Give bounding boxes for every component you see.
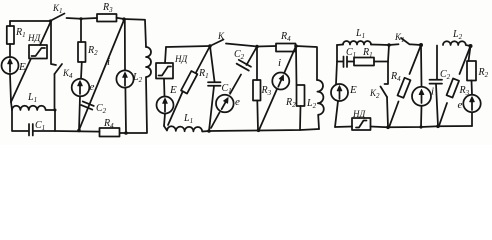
wire R2 lower (circuit2) <box>299 106 302 130</box>
wire R3 branch upper (circuit2) <box>256 47 258 81</box>
wire E to corner node <box>10 74 11 102</box>
current source i circle (circuit2) <box>272 73 289 90</box>
svg-text:L1: L1 <box>27 92 37 104</box>
wire top-left <box>10 20 50 22</box>
svg-text:L2: L2 <box>132 72 143 84</box>
wire loop right <box>33 110 55 131</box>
source e circle (circuit2) <box>216 95 234 113</box>
wire left edge to C1 (circuit3) <box>336 45 338 62</box>
switch K (circuit2) <box>210 40 224 47</box>
resistor R2 <box>78 42 86 62</box>
diagonal wire B to D (circuit2) <box>211 47 257 129</box>
wire R2 to e (circuit3) <box>471 81 474 95</box>
capacitor C2 (circuit2) <box>237 60 251 71</box>
current source J circle <box>116 70 133 87</box>
wire R1 to K2 branch (circuit3) <box>374 61 388 63</box>
wire right edge top (circuit2) <box>296 46 317 80</box>
svg-text:C2: C2 <box>440 69 451 81</box>
wire J branch lower <box>124 88 127 133</box>
svg-text:C2: C2 <box>234 49 245 61</box>
svg-text:i: i <box>107 56 110 68</box>
svg-text:L2: L2 <box>306 98 317 110</box>
svg-text:НД: НД <box>27 33 41 43</box>
wire J branch upper <box>124 19 126 70</box>
wire K2 lower (circuit3) <box>387 97 388 127</box>
wire diagonal i <box>79 20 124 130</box>
source e circle (circuit3) <box>463 95 480 112</box>
inductor L1 bottom (circuit2) <box>164 126 209 132</box>
top wire (circuit2) <box>166 46 210 47</box>
wire R3 to right corner <box>117 18 147 47</box>
wire C2 lower (circuit3) <box>436 84 438 126</box>
wire node A to ND box <box>40 21 51 45</box>
resistor R1 <box>9 21 11 26</box>
svg-text:E: E <box>169 84 177 96</box>
svg-text:R2: R2 <box>478 67 489 79</box>
switch K1 (circuit3) <box>389 38 421 45</box>
wire loop left <box>12 110 28 131</box>
svg-text:R4: R4 <box>390 71 401 83</box>
wire after K1 to R3 <box>67 17 98 20</box>
inductor L2 (circuit3) <box>443 41 471 46</box>
svg-text:К1: К1 <box>394 32 404 44</box>
svg-text:К1: К1 <box>52 3 62 15</box>
inductor L2 (right edge coil) <box>146 47 151 77</box>
svg-text:R2: R2 <box>285 97 296 109</box>
wire R3 lower (circuit2) <box>256 101 259 131</box>
svg-text:C2: C2 <box>96 103 107 115</box>
resistor R4 slanted (circuit3) <box>389 45 421 127</box>
bottom wire (circuit2) <box>209 129 319 131</box>
svg-text:R2: R2 <box>87 45 98 57</box>
wire i branch lower (circuit3) <box>420 106 423 127</box>
wire C1 branch upper (circuit2) <box>210 46 215 82</box>
wire B to R4 (circuit2) <box>257 45 276 48</box>
switch K1 <box>50 14 65 22</box>
top-left corner wire (circuit3) <box>337 44 343 47</box>
bottom wire left <box>55 130 100 133</box>
wire E to bottom corner (circuit3) <box>335 101 338 127</box>
svg-text:R1: R1 <box>362 47 373 59</box>
svg-text:e: e <box>90 81 95 93</box>
wire K4 branch vertical <box>51 21 56 65</box>
wire left edge down (circuit3) <box>336 62 337 85</box>
wire K4 lower <box>54 74 56 110</box>
svg-text:R1: R1 <box>15 27 26 39</box>
wire ND to E <box>163 79 166 97</box>
wire right edge lower <box>120 78 147 134</box>
inductor L1 <box>12 106 55 110</box>
svg-text:К: К <box>217 31 225 41</box>
capacitor C2 on diagonal <box>81 101 94 109</box>
capacitor C1 (circuit3) <box>337 57 354 68</box>
resistor R4 <box>100 128 120 137</box>
svg-text:L1: L1 <box>355 28 365 40</box>
svg-text:i: i <box>278 57 281 69</box>
wire E to bottom corner <box>164 114 165 127</box>
svg-text:E: E <box>349 84 357 96</box>
wire K2 branch vertical (circuit3) <box>385 45 390 84</box>
svg-text:R4: R4 <box>103 118 114 130</box>
resistor R1 (circuit3) <box>354 58 374 66</box>
junction dots circuit1 <box>49 17 128 135</box>
wire K to node B <box>226 44 257 47</box>
diagonal wire C to bottom (circuit2) <box>259 46 296 130</box>
source E circle (circuit2) <box>157 97 174 114</box>
wire L1 to node (circuit3) <box>371 44 389 47</box>
capacitor C1 (circuit2) <box>208 82 221 86</box>
svg-text:L1: L1 <box>183 113 193 125</box>
capacitor C2 (circuit3) <box>430 80 443 84</box>
nonlinear element ND box (circuit2) <box>156 63 173 79</box>
source E circle (circuit3) <box>331 84 348 101</box>
svg-text:L2: L2 <box>452 29 463 41</box>
svg-text:НД: НД <box>352 109 366 119</box>
wire ND to left edge <box>11 59 31 103</box>
wire left edge top <box>165 47 166 63</box>
svg-text:R4: R4 <box>280 31 291 43</box>
capacitor C1 <box>29 124 33 136</box>
svg-text:e: e <box>458 99 463 111</box>
resistor R1 slanted (circuit2) <box>168 46 210 125</box>
wire C1 branch lower (circuit2) <box>209 86 214 131</box>
svg-text:R3: R3 <box>102 2 113 14</box>
resistor R2 (circuit3) <box>467 61 476 81</box>
svg-text:К4: К4 <box>62 68 73 80</box>
wire C2 branch upper (circuit3) <box>436 46 438 80</box>
svg-text:НД: НД <box>174 54 188 64</box>
resistor R3 (circuit2) <box>253 80 261 101</box>
switch K4 <box>55 64 63 74</box>
resistor R3 slanted (circuit3) <box>439 46 471 126</box>
svg-text:R3: R3 <box>261 85 272 97</box>
nonlinear element ND box <box>29 45 47 59</box>
current source i circle (circuit3) <box>412 87 431 106</box>
wire R2 branch upper (circuit2) <box>295 46 298 85</box>
resistor R3 <box>97 14 117 22</box>
svg-text:К2: К2 <box>369 88 380 100</box>
wire R2 branch upper <box>80 19 82 42</box>
wire e to bottom corner (circuit3) <box>471 112 473 126</box>
junction dots circuit2 <box>207 44 298 133</box>
svg-text:R1: R1 <box>198 68 209 80</box>
inductor L2 (circuit2) <box>317 80 324 115</box>
junction dots circuit3 <box>386 43 472 129</box>
resistor R2 (circuit2) <box>297 85 305 106</box>
resistor R4 (circuit2) <box>276 44 296 52</box>
inductor L1 (circuit3) <box>343 41 371 45</box>
wire right edge bottom (circuit2) <box>317 115 320 129</box>
bottom wire right (circuit3) <box>388 126 472 127</box>
wire R2 branch upper (circuit3) <box>469 46 471 61</box>
switch K2 (circuit3) <box>381 87 388 98</box>
wire i branch upper (circuit3) <box>420 45 423 87</box>
wire corner to L1 <box>11 102 12 110</box>
wire R2 to e <box>80 62 83 79</box>
nonlinear element ND box (circuit3) <box>352 118 371 130</box>
svg-text:i: i <box>431 86 434 98</box>
wire ND to node F (circuit3) <box>371 126 389 129</box>
svg-text:e: e <box>235 96 240 108</box>
wire e to bottom node <box>79 96 80 130</box>
bottom wire to ND (circuit3) <box>335 126 352 129</box>
source E circle <box>2 57 19 74</box>
source e circle (circuit1) <box>72 79 90 97</box>
wire R1 to E <box>9 44 11 57</box>
